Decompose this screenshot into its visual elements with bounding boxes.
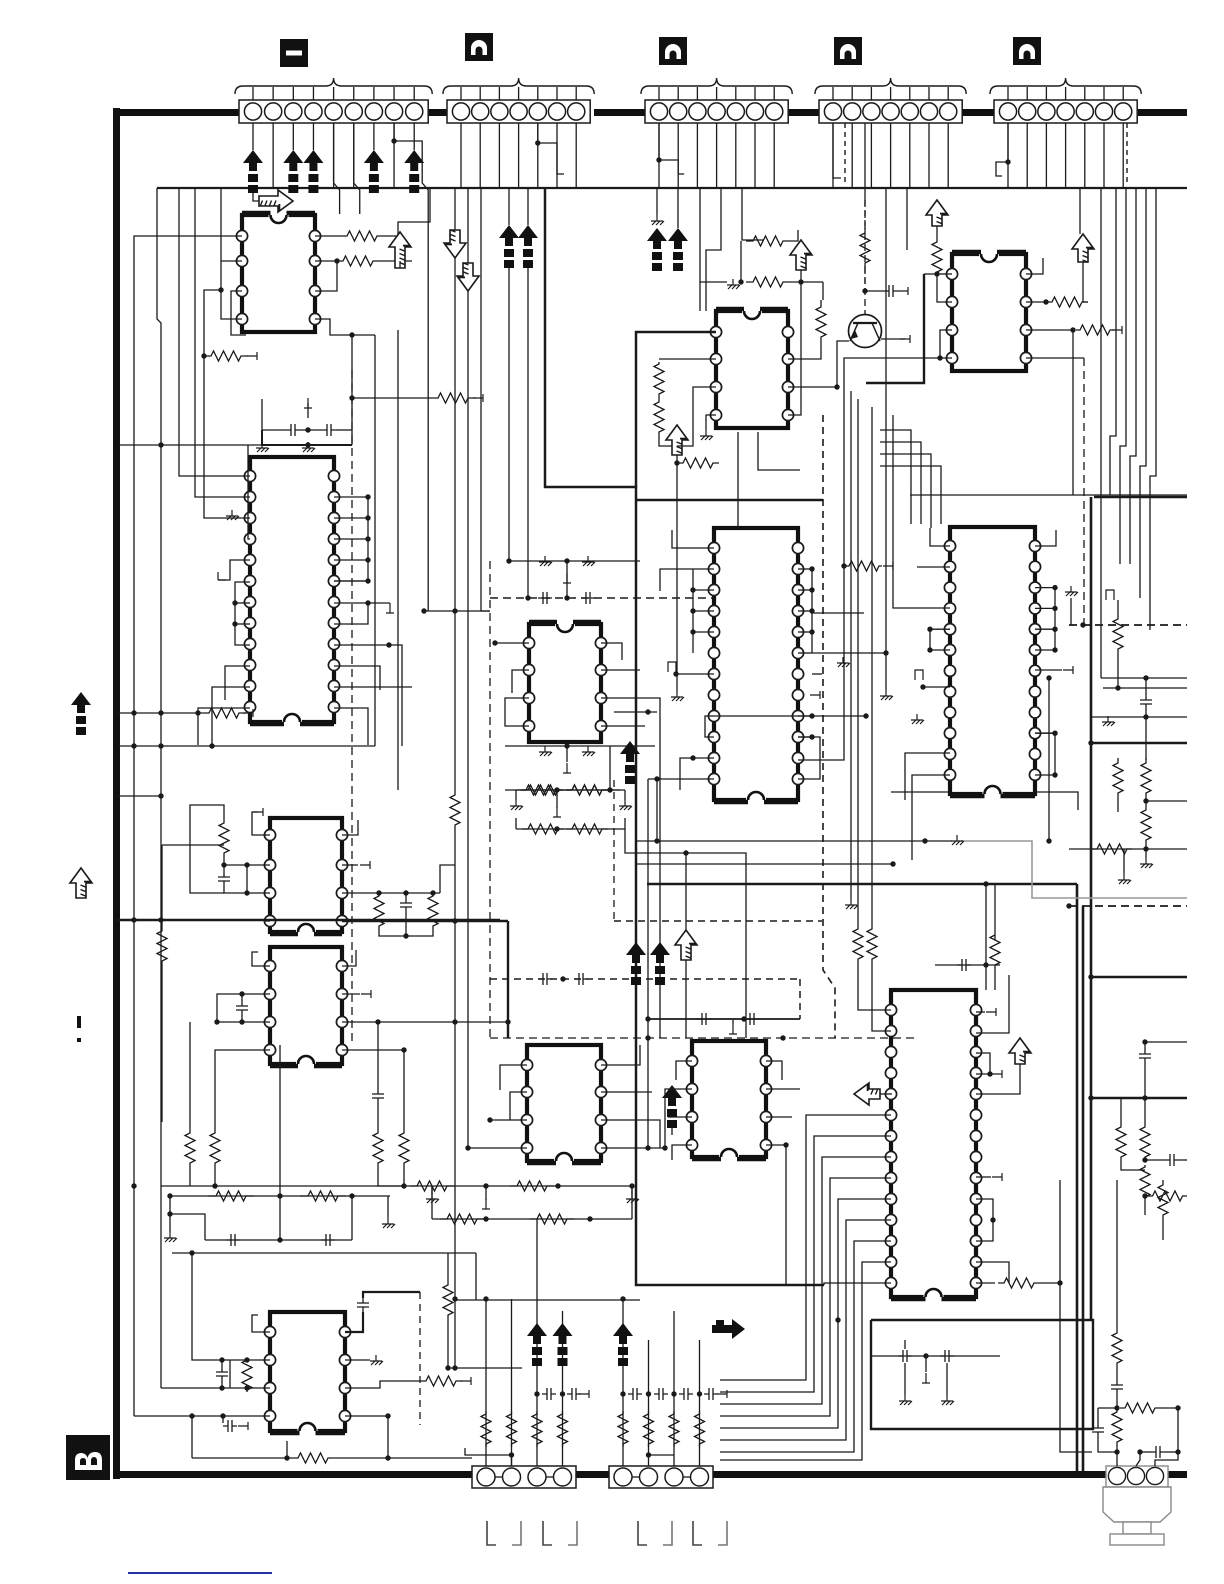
wire net (485, 1299, 487, 1466)
wire (660, 569, 693, 591)
wire (505, 698, 529, 726)
junction (1052, 647, 1057, 652)
terminal stub (360, 861, 370, 869)
shield dashed (490, 597, 714, 599)
resistor R206 (219, 818, 229, 858)
shield dashed (613, 780, 615, 921)
wire (676, 1061, 692, 1080)
resistor R253 (1140, 1165, 1150, 1199)
signal arrow right (712, 1319, 745, 1339)
junction (244, 1357, 249, 1362)
wire (312, 123, 314, 150)
junction (629, 1183, 634, 1188)
wire (495, 642, 529, 644)
wire (195, 188, 250, 497)
arrow PW (1009, 1038, 1031, 1064)
arrow PW (666, 425, 688, 455)
wire net (374, 335, 376, 746)
junction (690, 587, 695, 592)
junction (683, 850, 688, 855)
wire (994, 965, 996, 990)
capacitor C236 (957, 959, 971, 971)
wire (798, 568, 812, 570)
junction (1143, 675, 1148, 680)
junction (607, 787, 612, 792)
section label D (834, 37, 862, 65)
signal arrow with label (303, 150, 323, 171)
wire (231, 291, 246, 335)
resistor R241 (530, 1214, 574, 1224)
wire (1121, 1160, 1145, 1170)
junction (1142, 1193, 1147, 1198)
wire (872, 960, 891, 1031)
wire (333, 123, 335, 188)
wire (387, 1416, 389, 1458)
wire (1130, 188, 1136, 564)
capacitor C233 (574, 973, 588, 985)
wire (1098, 1407, 1117, 1409)
module box (871, 1320, 1093, 1429)
wire (880, 466, 941, 524)
junction (809, 629, 814, 634)
junction (365, 494, 370, 499)
shield dashed (1069, 624, 1187, 626)
op-amp IC203 (264, 818, 347, 936)
capacitor C214 (884, 285, 898, 297)
wire (658, 123, 660, 188)
wire (880, 454, 931, 528)
wire (976, 975, 1009, 1033)
wire (220, 188, 222, 261)
wire net (676, 463, 678, 691)
terminal stub (253, 808, 263, 816)
junction (509, 1452, 514, 1457)
junction (690, 608, 695, 613)
wire net (161, 845, 163, 925)
wire (631, 1186, 633, 1194)
wire (909, 123, 911, 188)
wire (798, 589, 812, 591)
wire (1146, 800, 1187, 802)
wire (252, 952, 270, 966)
wire (996, 123, 1008, 176)
wire (508, 188, 510, 225)
ground (626, 1193, 639, 1203)
resistor R247 (522, 785, 564, 795)
wire (117, 795, 161, 797)
junction (645, 1035, 650, 1040)
stub hook (668, 662, 676, 672)
junction (1142, 1039, 1147, 1044)
junction (923, 1353, 928, 1358)
resistor R258 (990, 935, 1000, 965)
wire (754, 123, 756, 188)
resistor R243 (1112, 1330, 1122, 1366)
wire (527, 268, 529, 598)
junction (376, 890, 381, 895)
wire (1035, 733, 1055, 775)
brace (443, 78, 594, 94)
resistor R226 (860, 228, 870, 268)
wire (377, 1022, 379, 1089)
resistor R217 (242, 1358, 252, 1392)
junction (1175, 1405, 1180, 1410)
wire (693, 610, 714, 612)
wire (880, 430, 911, 524)
wire (556, 123, 558, 188)
wire (353, 123, 355, 188)
wire (866, 274, 924, 383)
wire (680, 758, 693, 790)
junction (421, 608, 426, 613)
wire (556, 790, 558, 808)
junction (334, 258, 339, 263)
wire (516, 828, 625, 830)
wire (601, 1120, 660, 1148)
bus wire (157, 187, 1187, 189)
wire (1160, 1407, 1178, 1409)
wire (279, 1196, 281, 1240)
bus wire (1091, 742, 1187, 745)
resistor R202 (337, 256, 379, 266)
wire (334, 496, 368, 498)
bus wire (117, 919, 500, 921)
resistor R210 (450, 790, 460, 830)
wire (636, 499, 823, 502)
junction (452, 1365, 457, 1370)
wire (812, 612, 864, 614)
wire net (454, 188, 456, 790)
stub hook (1106, 590, 1114, 600)
wire (538, 123, 564, 174)
brace (815, 78, 966, 94)
ground (164, 1232, 177, 1242)
junction (645, 1145, 650, 1150)
wire (601, 698, 660, 740)
wire (658, 396, 660, 400)
wire (693, 589, 714, 591)
wire (976, 1053, 990, 1074)
junction (554, 826, 559, 831)
capacitor C217 (567, 1388, 581, 1400)
wire (1072, 330, 1074, 495)
wire (1122, 123, 1124, 188)
wire (198, 708, 250, 745)
wire (342, 892, 440, 894)
wire (400, 1185, 632, 1187)
connector CN6 (472, 1466, 576, 1488)
junction (809, 713, 814, 718)
wire (334, 538, 368, 540)
signal arrow (553, 1323, 573, 1344)
resistor R221 (520, 785, 562, 795)
wire (262, 430, 352, 445)
wire (601, 1147, 665, 1149)
junction (239, 1019, 244, 1024)
shield dashed boundary (351, 370, 353, 1042)
wire (732, 1019, 734, 1024)
resistor R250 (481, 1411, 491, 1447)
wire (906, 188, 908, 250)
wire (440, 865, 455, 893)
op-amp IC206 (523, 620, 606, 742)
wire (1120, 188, 1126, 564)
wire (742, 188, 763, 241)
wire (315, 260, 337, 262)
wire (1048, 678, 1050, 841)
wire (798, 715, 812, 717)
junction (535, 140, 540, 145)
wire (885, 188, 887, 384)
wire (342, 864, 358, 866)
wire (204, 445, 250, 518)
ground (510, 800, 523, 810)
junction (219, 1357, 224, 1362)
junction (131, 710, 136, 715)
resistor R248 (566, 785, 608, 795)
junction (927, 627, 932, 632)
junction (645, 1016, 650, 1021)
junction (1066, 903, 1071, 908)
wire (490, 1119, 527, 1121)
wire (946, 1363, 948, 1395)
wire (936, 226, 938, 240)
wire (214, 1168, 216, 1186)
wire (1070, 598, 1072, 625)
wire net (625, 829, 746, 1038)
signal arrow (527, 1323, 547, 1344)
wire (1145, 852, 1147, 858)
junction (483, 1216, 488, 1221)
ground (899, 1395, 912, 1405)
terminal stub (900, 335, 910, 343)
bus wire (1094, 496, 1187, 499)
signal arrow (647, 228, 667, 249)
terminal stub (243, 709, 253, 717)
junction (809, 587, 814, 592)
wire (432, 1218, 632, 1220)
wire (1035, 587, 1055, 589)
resistor R227 (654, 362, 664, 396)
junction (1052, 627, 1057, 632)
wire (937, 274, 952, 302)
capacitor C218 (628, 1388, 642, 1400)
wire (363, 1292, 420, 1298)
junction (189, 1250, 194, 1255)
wire (1110, 188, 1116, 495)
junction (1175, 1449, 1180, 1454)
wire (677, 188, 679, 228)
wire (117, 444, 262, 446)
wire (1035, 649, 1055, 651)
wire (205, 1239, 352, 1241)
wire (431, 1186, 433, 1219)
junction (385, 1413, 390, 1418)
junction (809, 608, 814, 613)
terminal stub (717, 1390, 727, 1398)
wire (1145, 678, 1147, 695)
wire (864, 123, 866, 200)
signal arrow (626, 942, 646, 963)
wire (468, 1147, 527, 1149)
shield dashed (490, 978, 800, 980)
wire (1145, 845, 1147, 852)
wire (575, 123, 577, 188)
junction (646, 1391, 651, 1396)
wire (515, 790, 517, 800)
schematic frame bottom border (113, 1471, 474, 1478)
junction (158, 710, 163, 715)
wire (334, 580, 368, 582)
shield dashed boundary (490, 1037, 917, 1039)
junction (741, 1016, 746, 1021)
junction (783, 1142, 788, 1147)
wire (161, 1185, 400, 1187)
wire (223, 858, 225, 872)
resistor R257 (695, 1411, 705, 1447)
wire (192, 1457, 290, 1459)
junction (158, 917, 163, 922)
junction (835, 1317, 840, 1322)
capacitor C211 (357, 1298, 369, 1312)
wire (224, 864, 270, 866)
junction (375, 1019, 380, 1024)
ground (951, 835, 964, 845)
transistor Q201 (849, 315, 882, 348)
wire (292, 123, 294, 150)
resistor R216 (300, 1191, 346, 1201)
junction (167, 1193, 172, 1198)
connector CN7 (609, 1466, 713, 1488)
wire (431, 1186, 433, 1194)
wire (649, 1454, 675, 1456)
signal arrow (668, 228, 688, 249)
wire (161, 1387, 270, 1389)
junction (505, 1019, 510, 1024)
signal arrow (499, 225, 519, 246)
terminal stub (883, 562, 893, 570)
junction (983, 881, 988, 886)
capacitor C207 (226, 1234, 240, 1246)
wire (700, 188, 727, 282)
junction (365, 515, 370, 520)
wire (264, 920, 270, 922)
wire (252, 812, 270, 835)
junction (1088, 1095, 1093, 1100)
resistor R256 (853, 928, 863, 960)
wire (172, 1252, 476, 1254)
resistor R242 (998, 1278, 1040, 1288)
wire (912, 775, 950, 860)
resistor R233 (1113, 612, 1123, 656)
wire (383, 188, 430, 236)
wire (117, 745, 375, 747)
wire (518, 123, 520, 188)
wire net (720, 1241, 891, 1452)
wire (636, 332, 716, 487)
wire (455, 1299, 640, 1301)
wire (334, 686, 412, 688)
junction (219, 1385, 224, 1390)
wire (1065, 123, 1067, 188)
resistor R253 (558, 1411, 568, 1447)
wire net (1100, 188, 1102, 678)
wire (758, 432, 800, 470)
resistor R220 (290, 1453, 336, 1463)
resistor R246 (1158, 1180, 1168, 1220)
resistor R203 (430, 393, 476, 403)
wire (500, 1065, 527, 1090)
wire (624, 790, 626, 800)
ground (370, 1355, 383, 1365)
resistor R223 (746, 236, 790, 246)
bus wire (1091, 976, 1187, 979)
wire net (659, 740, 661, 1038)
junction (214, 1019, 219, 1024)
terminal stub (563, 573, 571, 583)
resistor R212 (210, 1128, 220, 1168)
junction (1070, 327, 1075, 332)
op-amp IC207 (521, 1045, 606, 1165)
bus wire (507, 921, 509, 1038)
junction (1143, 714, 1148, 719)
junction (674, 460, 679, 465)
wire (448, 1320, 522, 1368)
resistor R219 (420, 1376, 462, 1386)
ground (845, 899, 858, 909)
wire net (647, 779, 649, 1148)
junction (189, 1413, 194, 1418)
resistor R229 (677, 458, 719, 468)
IC213 (885, 990, 981, 1301)
wire net (685, 853, 687, 1038)
wire shielded (864, 268, 866, 291)
junction (1142, 1095, 1147, 1100)
wire (262, 399, 286, 430)
wire (225, 666, 250, 700)
wire (788, 341, 849, 387)
wire (601, 725, 645, 727)
ground (700, 430, 713, 440)
wire (798, 737, 820, 779)
section label D (1013, 37, 1041, 65)
wire (300, 429, 322, 431)
junction (920, 684, 925, 689)
junction (1143, 846, 1148, 851)
resistor R213 (373, 1128, 383, 1168)
wire (833, 123, 841, 178)
ground (1065, 586, 1078, 596)
terminal stub (986, 1008, 996, 1016)
wire (510, 560, 640, 562)
resistor R240 (440, 1214, 484, 1224)
wire (705, 716, 714, 737)
junction (220, 1413, 225, 1418)
stub hook (915, 670, 923, 680)
wire (162, 844, 224, 846)
wire net (134, 236, 242, 920)
wire (192, 1253, 270, 1360)
wire (601, 1045, 640, 1065)
arrow PW (790, 240, 812, 270)
wire (1150, 188, 1156, 630)
junction (349, 1193, 354, 1198)
wire (1145, 1159, 1165, 1161)
wire (1026, 301, 1046, 303)
wire (976, 1282, 995, 1284)
wire (812, 673, 822, 675)
resistor R209 (428, 893, 438, 929)
